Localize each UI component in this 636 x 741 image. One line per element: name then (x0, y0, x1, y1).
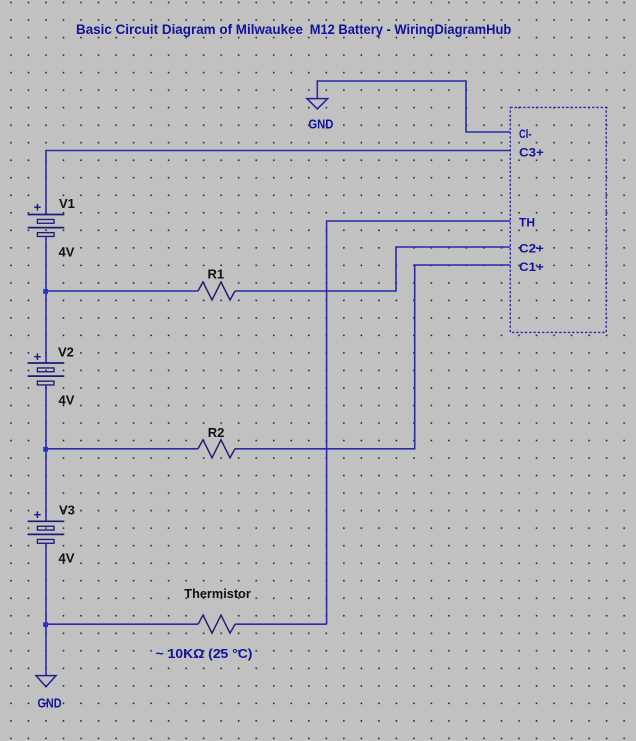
svg-text:+: + (34, 349, 42, 364)
svg-text:Cl-: Cl- (519, 127, 532, 141)
svg-text:Basic Circuit Diagram of Milwa: Basic Circuit Diagram of Milwaukee (76, 21, 303, 37)
svg-text:GND: GND (308, 118, 333, 132)
svg-text:V3: V3 (59, 503, 75, 518)
svg-text:4V: 4V (59, 393, 75, 408)
svg-text:~ 10KΩ (25 °C): ~ 10KΩ (25 °C) (156, 647, 253, 661)
svg-text:C3+: C3+ (519, 145, 544, 159)
svg-text:4V: 4V (59, 245, 75, 260)
svg-text:R1: R1 (208, 267, 225, 282)
svg-text:+: + (34, 507, 42, 522)
svg-text:V1: V1 (59, 196, 75, 211)
svg-text:V2: V2 (58, 345, 74, 360)
svg-text:4V: 4V (59, 551, 75, 566)
svg-text:C1+: C1+ (519, 260, 544, 274)
svg-text:+: + (34, 199, 42, 214)
svg-text:C2+: C2+ (519, 241, 544, 255)
svg-text:M12 Battery - WiringDiagramHub: M12 Battery - WiringDiagramHub (310, 21, 512, 37)
svg-text:Thermistor: Thermistor (184, 587, 251, 601)
svg-text:GND: GND (38, 697, 62, 711)
svg-text:R2: R2 (208, 425, 225, 440)
svg-text:TH: TH (519, 215, 535, 229)
